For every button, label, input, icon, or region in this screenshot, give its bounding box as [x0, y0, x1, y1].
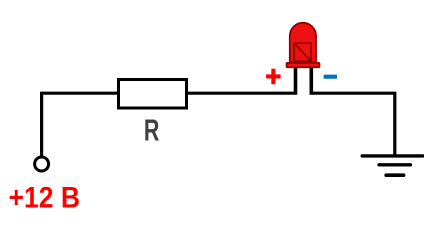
ground bar 2	[379, 163, 410, 166]
svg-text:+12 В: +12 В	[9, 182, 81, 215]
wire: resistor to LED anode	[188, 92, 297, 95]
terminal (open circle)	[35, 157, 49, 171]
svg-text:R: R	[144, 113, 160, 148]
LED D1 dome body	[290, 23, 316, 63]
LED D1 leg (cathode)	[309, 67, 313, 95]
wire: terminal up to junction	[40, 93, 43, 156]
wire: LED cathode to ground corner	[310, 93, 395, 156]
wire: left horizontal to resistor	[40, 92, 118, 95]
ground bar 1	[362, 154, 423, 157]
LED D1 leg (anode)	[294, 67, 298, 95]
ground bar 3	[386, 173, 403, 177]
LED D1 die square	[294, 43, 311, 61]
polarity + (anode marker)	[266, 69, 281, 85]
resistor R	[119, 80, 187, 109]
polarity − (cathode marker)	[324, 75, 338, 79]
LED D1 flange	[287, 63, 320, 67]
LED D1 die diagonal	[294, 43, 311, 61]
